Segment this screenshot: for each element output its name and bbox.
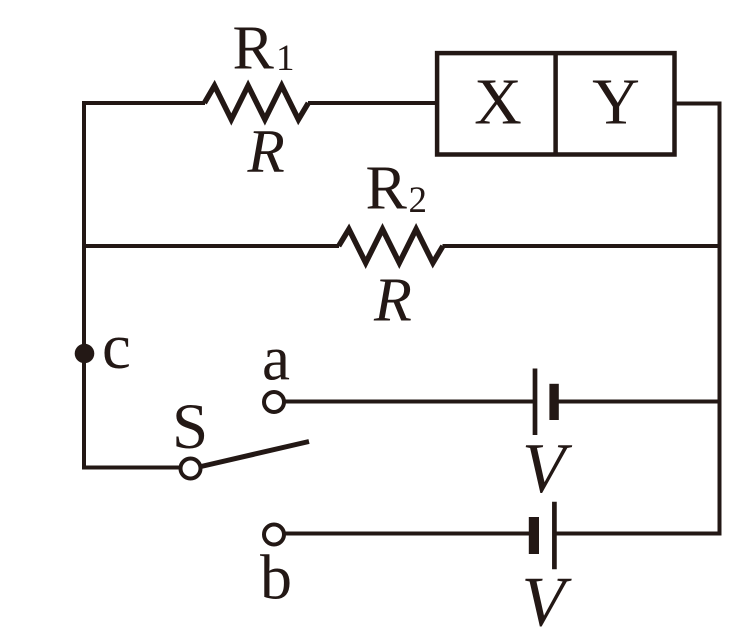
- svg-text:b: b: [260, 542, 292, 613]
- wire: box to right rail: [674, 102, 722, 106]
- svg-text:R: R: [247, 119, 285, 186]
- contact a (open terminal): [264, 392, 284, 412]
- svg-text:a: a: [262, 324, 290, 394]
- component box containing X and Y: [437, 53, 674, 154]
- svg-text:c: c: [102, 311, 131, 383]
- wire: bottom-left horizontal to switch pivot: [84, 466, 181, 470]
- wire: battery V1 to right rail: [559, 400, 720, 404]
- wire: R1 to box X: [308, 101, 437, 105]
- battery V1: long (positive) plate: [533, 369, 538, 436]
- svg-text:R: R: [233, 15, 275, 83]
- battery V1: short thick (negative) plate: [549, 384, 558, 420]
- wire: right vertical rail: [718, 102, 722, 536]
- node c (junction dot): [75, 344, 95, 364]
- svg-text:V: V: [522, 563, 573, 641]
- resistor R1: [204, 86, 308, 120]
- svg-text:S: S: [172, 391, 208, 463]
- wire: contact b to battery V2: [285, 532, 530, 536]
- svg-text:V: V: [522, 430, 573, 508]
- svg-text:R: R: [366, 154, 408, 222]
- svg-text:2: 2: [409, 180, 428, 221]
- wire: contact a to battery V1: [285, 400, 536, 404]
- contact b (open terminal): [264, 525, 284, 545]
- wire: top horizontal, left lead into R1: [82, 101, 205, 105]
- wire: left vertical rail (c branch): [82, 101, 86, 470]
- divider between X and Y cells: [553, 53, 558, 155]
- svg-text:X: X: [474, 65, 522, 138]
- wire: R2 left lead: [84, 244, 339, 248]
- battery V2: short thick (negative) plate: [529, 517, 539, 554]
- svg-text:1: 1: [276, 38, 295, 79]
- switch S pivot contact: [181, 459, 201, 479]
- wire: R2 right lead to right rail: [443, 244, 720, 248]
- svg-text:R: R: [373, 267, 412, 335]
- resistor R2: [339, 229, 443, 263]
- wire: battery V2 to right rail: [557, 532, 720, 536]
- switch S blade (open, angled up-right): [201, 442, 309, 467]
- battery V2: long (positive) plate: [552, 502, 557, 570]
- svg-text:Y: Y: [592, 65, 640, 138]
